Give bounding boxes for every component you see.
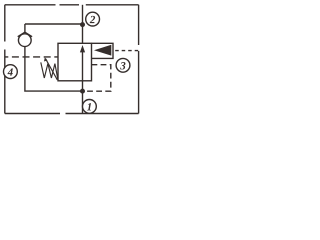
pilot stage frame: [92, 43, 114, 58]
pilot line to port 3 (dashed): [113, 50, 139, 52]
node junction on port 1 line: [80, 89, 85, 94]
flow arrow inside valve body: [80, 45, 85, 81]
pilot sense loop (dashed): [85, 65, 111, 92]
enclosure boundary right (long-dash): [138, 5, 140, 114]
pilot poppet (solid triangle): [94, 45, 111, 56]
port 3 label: [116, 58, 130, 72]
wire from check valve to port 2 line: [25, 23, 83, 25]
enclosure boundary bottom (long-dash): [5, 113, 139, 115]
port 2 line (vertical from top boundary to valve body): [82, 5, 84, 44]
node junction on port 2 line: [80, 22, 85, 27]
port 2 label: [86, 12, 100, 26]
enclosure boundary left (long-dash): [4, 5, 6, 114]
wire from check valve down to port 1 node: [25, 47, 83, 92]
enclosure boundary top (long-dash): [5, 4, 139, 6]
spring (adjustable, with arrow): [41, 57, 58, 80]
main valve body U1: [58, 43, 92, 81]
port 1 label: [83, 100, 97, 114]
port 4 label: [3, 65, 17, 79]
check valve CV1 (seat over ball): [18, 24, 32, 47]
vent line to port 4 (dashed): [5, 56, 58, 58]
port 1 line (vertical from valve body to bottom boundary): [82, 81, 84, 114]
